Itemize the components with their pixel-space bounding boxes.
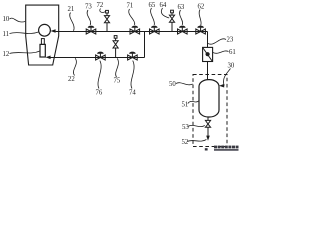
svg-text:50: 50: [169, 81, 176, 88]
label 22: [68, 58, 76, 83]
label 21: [68, 6, 75, 31]
svg-text:65: 65: [149, 2, 156, 9]
svg-text:63: 63: [178, 4, 185, 11]
valve 53 (vertical drain valve): [205, 117, 210, 136]
label 65: [149, 2, 156, 25]
valve 62: [196, 26, 206, 34]
svg-text:74: 74: [129, 90, 136, 97]
svg-text:53: 53: [182, 124, 189, 131]
wire pipe into tank: [207, 62, 209, 81]
label 23: [208, 37, 234, 45]
wire pipe 22 (lower header): [50, 57, 144, 59]
label 12: [3, 51, 40, 58]
dashed enclosure 50 (unit 30): [193, 75, 227, 147]
label 52: [182, 139, 207, 146]
label 30: [223, 63, 234, 86]
svg-text:22: 22: [68, 76, 75, 83]
valve 63: [178, 26, 188, 34]
svg-text:23: 23: [227, 37, 234, 44]
svg-text:11: 11: [3, 31, 10, 38]
svg-text:30: 30: [228, 63, 235, 70]
wire riser junction (pipe 22 joins pipe 21): [144, 32, 146, 58]
wire pipe 23 (down to flowmeter): [207, 32, 209, 48]
sample bottle 12: [40, 39, 45, 57]
label 50: [169, 81, 193, 88]
label 53: [182, 124, 205, 131]
label 74: [129, 61, 136, 97]
svg-text:72: 72: [97, 2, 104, 9]
svg-text:71: 71: [127, 3, 134, 10]
svg-text:10: 10: [3, 16, 10, 23]
watermark: [205, 146, 239, 151]
valve 64 (vertical vent valve): [169, 10, 174, 31]
svg-text:12: 12: [3, 51, 10, 58]
label 62: [198, 4, 205, 26]
svg-text:73: 73: [85, 4, 92, 11]
label 71: [127, 3, 135, 26]
flowmeter 61: [203, 47, 213, 61]
label 10: [3, 16, 26, 23]
label 51: [182, 101, 200, 109]
label 64: [160, 2, 170, 18]
valve 75 (vertical vent valve): [113, 36, 118, 58]
svg-text:21: 21: [68, 6, 75, 13]
label 75: [114, 58, 121, 84]
burner circle 11: [39, 24, 51, 36]
valve 65: [150, 26, 160, 34]
svg-text:51: 51: [182, 102, 189, 109]
svg-text:62: 62: [198, 4, 205, 11]
label 73: [85, 4, 92, 26]
svg-text:76: 76: [96, 90, 103, 97]
label 61: [213, 49, 236, 56]
arrow into burner: [50, 29, 55, 33]
wire pipe 21 (top header): [56, 31, 208, 33]
svg-text:64: 64: [160, 2, 167, 9]
arrow into bottle: [46, 56, 51, 60]
vessel 10 (furnace body): [26, 5, 59, 65]
svg-text:75: 75: [114, 78, 121, 85]
label 72: [97, 2, 106, 12]
tank 51: [199, 80, 219, 117]
valve 72 (vertical vent valve): [104, 10, 109, 31]
valve 74: [128, 52, 138, 60]
svg-text:52: 52: [182, 139, 189, 146]
arrow into tank (from label 30 leader): [219, 84, 224, 88]
valve 76: [96, 52, 106, 60]
label 76: [96, 61, 103, 97]
svg-text:61: 61: [229, 49, 236, 56]
valve 73: [86, 26, 96, 34]
label 63: [178, 4, 185, 25]
label 11: [3, 31, 39, 38]
valve 71: [130, 26, 140, 34]
outlet arrow 52: [206, 136, 210, 141]
